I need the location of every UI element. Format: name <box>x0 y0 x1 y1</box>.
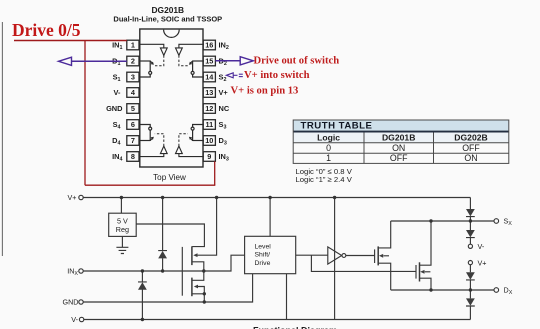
diode D5 V+ to Dx <box>466 265 475 290</box>
svg-text:V+ is on pin 13: V+ is on pin 13 <box>231 85 299 96</box>
pin 6 box <box>127 120 139 130</box>
svg-text:3: 3 <box>131 73 135 82</box>
IC notch <box>164 30 180 38</box>
svg-text:GND: GND <box>106 104 123 113</box>
svg-text:DG201B: DG201B <box>382 132 415 142</box>
svg-text:V-: V- <box>478 242 485 251</box>
table title thick rule <box>293 131 509 133</box>
svg-text:1: 1 <box>326 153 331 163</box>
svg-text:V+: V+ <box>68 193 77 202</box>
node Dx/Q4 <box>429 288 432 291</box>
diode D2 clamp <box>138 271 147 320</box>
pin 9 box <box>203 152 215 162</box>
dashed gate wire A4 to switch SW4 <box>155 134 164 146</box>
wire Q2 body to source <box>198 287 205 294</box>
pin 7 box <box>127 136 139 146</box>
pin 12 box <box>203 104 215 114</box>
svg-text:D4: D4 <box>112 136 120 147</box>
terminal GND <box>79 300 83 304</box>
diode D6 Dx to V- <box>466 290 475 320</box>
svg-text:14: 14 <box>205 73 214 82</box>
svg-text:0: 0 <box>326 143 331 153</box>
transistor Q4 gate bar <box>415 265 417 279</box>
svg-text:IN1: IN1 <box>112 41 122 52</box>
svg-text:9: 9 <box>207 152 211 161</box>
svg-text:V-: V- <box>114 88 122 97</box>
terminal Dx <box>494 288 499 293</box>
svg-text:V+: V+ <box>478 258 487 267</box>
svg-text:16: 16 <box>205 41 213 50</box>
schematic labels <box>63 193 513 324</box>
svg-text:OFF: OFF <box>390 153 408 163</box>
regulator U2 5V Reg <box>109 213 137 236</box>
svg-text:IN4: IN4 <box>112 152 122 163</box>
transistor Q2 body arrow <box>194 285 198 289</box>
terminal V- mini <box>468 244 472 248</box>
purple arrowhead left D1 <box>59 57 72 65</box>
node Q2 source join <box>203 292 206 295</box>
dashed gate wire A3 to switch SW3 <box>179 134 188 146</box>
wire level shift to inverter A5 <box>296 254 328 256</box>
ground symbol <box>116 236 128 253</box>
table column line 2 <box>433 133 435 164</box>
pin labels right <box>219 41 230 163</box>
svg-text:IN2: IN2 <box>219 41 229 52</box>
node GND/Q2 <box>203 300 206 303</box>
red wire bottom horizontal <box>85 184 215 186</box>
junction dots <box>120 196 472 321</box>
transistor Q1 body arrow <box>193 253 197 257</box>
wire Sx line <box>391 220 494 222</box>
wire Q4 source to Dx <box>420 278 431 290</box>
purple wire out of D2 <box>215 60 240 62</box>
transistor Q4 body arrow <box>420 270 424 274</box>
inverter A3 <box>176 146 183 154</box>
svg-text:D2: D2 <box>219 57 227 68</box>
node Dx/D5D6 <box>469 288 472 291</box>
svg-text:INX: INX <box>67 267 78 278</box>
wire regulator output to Q1 drain <box>136 224 204 247</box>
transistor Q3 gate bar <box>374 249 376 263</box>
svg-text:Drive: Drive <box>255 260 271 267</box>
red wire vertical to pin9 IN3 <box>214 161 216 185</box>
red wire vertical left <box>84 41 86 186</box>
svg-text:8: 8 <box>131 152 135 161</box>
svg-text:Logic “1” ≥ 2.4 V: Logic “1” ≥ 2.4 V <box>296 175 353 184</box>
switch SW1 (pins 2-3) <box>139 61 154 78</box>
svg-text:S3: S3 <box>219 120 227 131</box>
wire pin16 to inverter A2 <box>179 44 204 48</box>
switch SW4 (pins 6-7) <box>139 125 154 142</box>
purple wire out of D1 <box>70 60 127 62</box>
pin labels left <box>106 41 123 163</box>
purple small arrow at S2 <box>226 73 243 78</box>
wire Q4 drain to Sx <box>420 221 431 265</box>
table row line 2 <box>293 152 509 154</box>
svg-text:S4: S4 <box>113 120 121 131</box>
terminal V+ <box>79 195 83 199</box>
node V+/D1 <box>161 196 164 199</box>
svg-text:15: 15 <box>205 57 213 66</box>
diode D4 Sx to V- <box>466 221 475 244</box>
table row line 1 <box>293 142 509 144</box>
pin 15 box <box>203 56 215 66</box>
wire V+ branch to Q1 body <box>197 198 217 256</box>
node Sx/D3D4 <box>469 219 472 222</box>
wire inverter supply <box>334 198 336 320</box>
inverter A4 <box>160 146 167 154</box>
wire inverter to Q3 gate <box>346 255 375 257</box>
scan artifact left edge <box>1 22 3 256</box>
svg-text:13: 13 <box>205 88 213 97</box>
wire V+ to level shift <box>269 198 271 237</box>
wire Q1 source to INx <box>192 262 204 281</box>
svg-text:V+: V+ <box>219 88 229 97</box>
table header row <box>317 132 488 142</box>
dashed gate wire A2 to switch SW2 <box>179 55 188 65</box>
node V+/Q1 body <box>215 196 218 199</box>
wire Q2 source to GND <box>192 294 204 302</box>
node INx/Q1Q2 <box>202 269 205 272</box>
svg-text:ON: ON <box>464 153 477 163</box>
pin 14 box <box>203 72 215 82</box>
terminal V+ mini <box>468 261 472 265</box>
svg-text:DX: DX <box>504 286 513 297</box>
wire V+ rail <box>83 197 470 199</box>
wire INx line <box>83 255 244 271</box>
table data rows <box>326 143 480 163</box>
wire Dx line <box>391 289 494 291</box>
inverter A5 <box>328 247 342 264</box>
svg-text:5: 5 <box>131 104 135 113</box>
node Sx/Q4 <box>429 219 432 222</box>
terminal Sx <box>494 219 499 224</box>
svg-text:S2: S2 <box>219 73 227 84</box>
svg-text:IN3: IN3 <box>219 152 229 163</box>
pin 5 box <box>127 104 139 114</box>
terminal V- <box>79 317 83 321</box>
wire level shift to V- <box>286 274 288 320</box>
wire V- rail <box>84 319 471 321</box>
svg-text:12: 12 <box>205 104 213 113</box>
svg-text:Logic: Logic <box>317 132 340 142</box>
node V-/D2 <box>141 318 144 321</box>
wire GND line <box>83 274 252 302</box>
TRUTH TABLE title band <box>293 120 509 131</box>
svg-text:10: 10 <box>205 136 213 145</box>
svg-text:Drive out of switch: Drive out of switch <box>254 56 340 67</box>
transistor Q3 body arrow <box>379 254 383 258</box>
svg-text:NC: NC <box>219 104 230 113</box>
inverter A5 bubble <box>342 254 346 258</box>
svg-text:D3: D3 <box>219 136 227 147</box>
svg-text:Reg: Reg <box>116 225 129 234</box>
table column line 1 <box>363 133 365 164</box>
svg-text:ON: ON <box>392 143 405 153</box>
wire pin1 to inverter A1 <box>139 44 164 48</box>
node INx/D2 <box>141 269 144 272</box>
wire pin8 to inverter A4 <box>139 154 164 157</box>
svg-text:SX: SX <box>504 217 513 228</box>
svg-text:V-: V- <box>71 315 78 324</box>
svg-text:Shift/: Shift/ <box>255 252 271 259</box>
pin 1 box <box>127 40 216 161</box>
svg-text:OFF: OFF <box>462 143 480 153</box>
svg-text:V+ into switch: V+ into switch <box>244 70 310 81</box>
pin 2 box <box>127 56 139 66</box>
red wire drive to IN1 <box>14 40 127 42</box>
wire Q3 drain to Sx <box>379 221 391 248</box>
level shift block U3 <box>245 236 296 273</box>
table outer border <box>293 120 509 163</box>
transistor Q3 channel <box>377 246 379 265</box>
pin 11 box <box>203 120 215 130</box>
svg-text:7: 7 <box>131 136 135 145</box>
wire pin9 to inverter A3 <box>179 154 204 157</box>
table header band <box>293 133 509 143</box>
svg-text:GND: GND <box>63 298 79 307</box>
svg-text:2: 2 <box>131 57 135 66</box>
svg-text:Level: Level <box>255 244 272 251</box>
svg-text:6: 6 <box>131 120 135 129</box>
pin 3 box <box>127 72 139 82</box>
svg-text:TRUTH TABLE: TRUTH TABLE <box>301 121 373 132</box>
switch SW2 (pins 15-14) <box>189 61 204 78</box>
svg-text:Dual-In-Line, SOIC and TSSOP: Dual-In-Line, SOIC and TSSOP <box>113 14 222 23</box>
node V+/reg <box>120 196 123 199</box>
svg-text:4: 4 <box>131 88 136 97</box>
IC body U1 DG201B <box>140 29 203 167</box>
wire V+ to regulator <box>120 198 122 214</box>
pin 10 box <box>203 136 215 146</box>
inverter A1 <box>160 48 167 56</box>
svg-text:11: 11 <box>205 120 213 129</box>
node INx/D1 <box>161 269 164 272</box>
dashed gate wire A1 to switch SW1 <box>155 55 164 65</box>
node V+/inverter supply <box>333 196 336 199</box>
purple arrowhead right D2 <box>240 57 253 65</box>
inverter A2 <box>176 48 183 56</box>
pin 8 box <box>127 152 139 162</box>
terminal INx <box>79 269 83 273</box>
diode D3 V+ to Sx <box>466 198 475 222</box>
pin 13 box <box>203 88 215 98</box>
svg-text:1: 1 <box>131 41 135 50</box>
pin 4 box <box>127 88 139 98</box>
node V+/level shift <box>268 196 271 199</box>
pin 16 box <box>203 40 215 50</box>
svg-text:DG202B: DG202B <box>454 132 487 142</box>
wire gate tap to Q4 <box>311 255 416 271</box>
svg-text:Functional Diagram: Functional Diagram <box>253 326 337 329</box>
transistor Q1 gate bar <box>181 247 183 296</box>
pin numbers <box>131 41 214 162</box>
diode D1 clamp <box>158 198 167 272</box>
transistor Q4 channel <box>419 262 421 281</box>
svg-text:Top View: Top View <box>153 173 186 182</box>
transistor Q1 channel <box>191 246 193 265</box>
wire Q3 source to Dx <box>379 263 391 290</box>
svg-text:Drive 0/5: Drive 0/5 <box>12 20 81 40</box>
switch SW3 (pins 11-10) <box>189 125 204 142</box>
svg-text:S1: S1 <box>113 73 121 84</box>
transistor Q2 channel <box>191 278 193 297</box>
